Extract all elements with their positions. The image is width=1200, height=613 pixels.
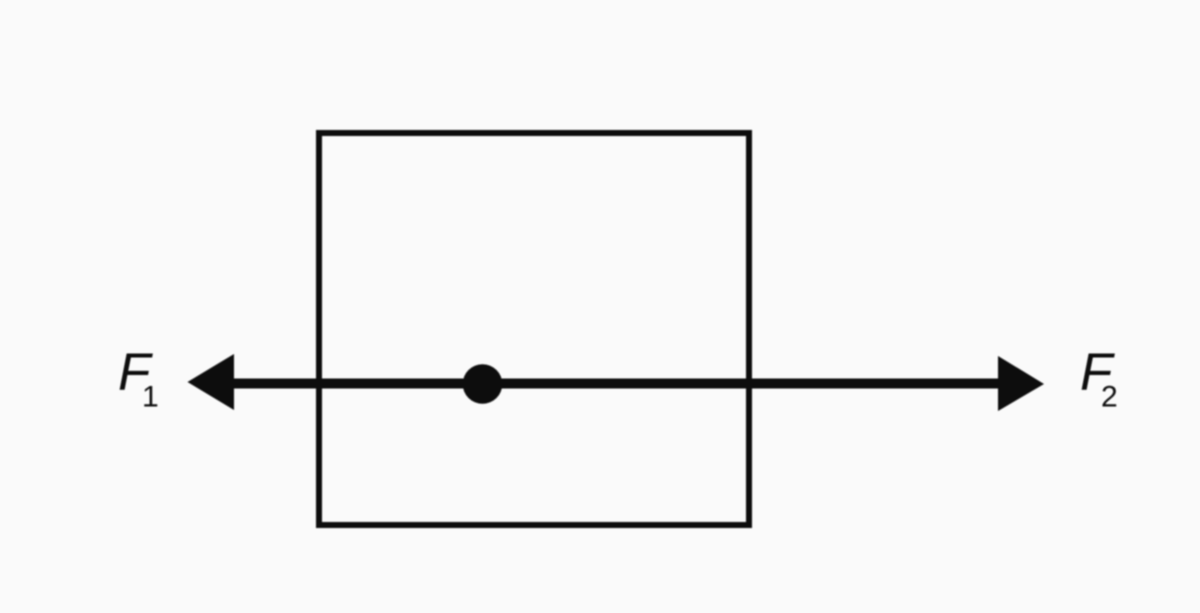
svg-text:1: 1 xyxy=(142,381,159,414)
box (rigid body rectangle) xyxy=(319,133,749,525)
svg-text:2: 2 xyxy=(1101,381,1118,414)
arrowhead F1 (left) xyxy=(188,354,235,410)
arrowhead F2 (right) xyxy=(998,356,1044,411)
wire (force line through center) xyxy=(210,379,1020,389)
node center dot xyxy=(463,364,503,404)
